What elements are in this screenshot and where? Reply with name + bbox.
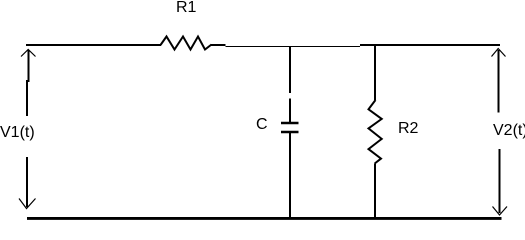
svg-text:R1: R1 (176, 0, 197, 16)
wire R2 stem lower (374, 164, 376, 219)
wire top-left segment (26, 44, 161, 46)
capacitor C (281, 123, 299, 132)
resistor R2 (369, 100, 382, 164)
resistor R1 (161, 37, 212, 50)
svg-text:V2(t): V2(t) (493, 122, 525, 139)
arrow V1 upper (arrowhead up) (21, 50, 36, 117)
wire capacitor stem upper (289, 46, 291, 122)
wire top-middle thin segment (226, 46, 361, 48)
svg-text:C: C (256, 116, 268, 133)
wire R2 stem upper (374, 45, 376, 100)
arrow V2 lower (arrowhead down) (493, 149, 508, 215)
wire top-middle thick segment (211, 44, 226, 46)
arrow V1 lower (arrowhead down) (19, 157, 36, 209)
arrow V2 upper (arrowhead up) (492, 49, 506, 113)
svg-text:R2: R2 (398, 120, 419, 137)
wire top-right segment (360, 44, 500, 46)
svg-text:V1(t): V1(t) (0, 124, 35, 141)
wire bottom rail (27, 217, 502, 220)
wire capacitor stem lower (289, 133, 291, 218)
